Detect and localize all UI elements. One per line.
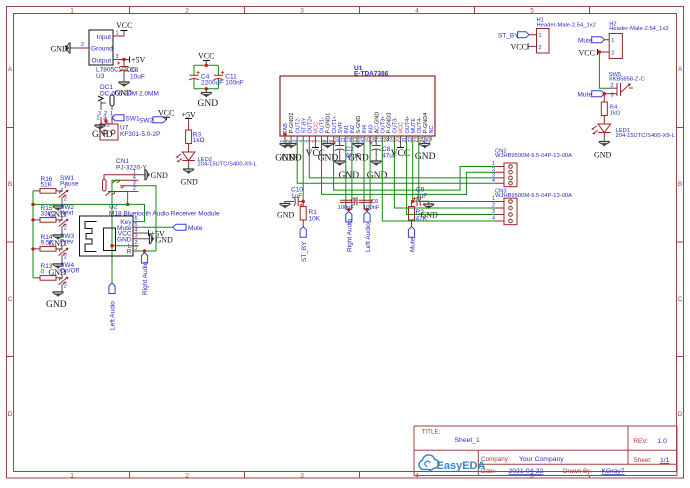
- svg-text:2: 2: [611, 51, 614, 57]
- junction dot L pin: [110, 244, 113, 247]
- svg-text:1: 1: [64, 184, 67, 190]
- svg-text:U3: U3: [96, 73, 105, 80]
- svg-text:Sheet_1: Sheet_1: [455, 437, 481, 444]
- svg-text:Input: Input: [97, 34, 112, 41]
- svg-text:204-15UTC/S400-X9-L: 204-15UTC/S400-X9-L: [616, 133, 676, 139]
- wire ST-BY to R1 node: [302, 141, 304, 202]
- svg-text:VCC: VCC: [314, 122, 320, 134]
- frame row letters right: [678, 66, 683, 418]
- net flag ST_BY: [300, 227, 306, 238]
- svg-text:5: 5: [530, 8, 534, 15]
- switch SW4: [59, 262, 80, 289]
- net flag SW1: [112, 115, 124, 121]
- capacitor C11: [213, 75, 223, 80]
- svg-text:D: D: [8, 411, 13, 418]
- svg-text:10K: 10K: [309, 216, 321, 223]
- U1 TAB node dot: [283, 133, 286, 136]
- U1 pin 9 OUT1+: [329, 116, 338, 143]
- svg-text:1: 1: [70, 8, 74, 15]
- junction dot SW5 pin3: [603, 92, 606, 95]
- capacitor C5: [340, 200, 353, 202]
- svg-text:EasyEDA: EasyEDA: [437, 460, 486, 472]
- switch SW3: [59, 233, 75, 260]
- svg-text:OUT4-: OUT4-: [417, 117, 423, 134]
- svg-text:1: 1: [135, 246, 138, 252]
- svg-text:Header-Male-2.54_1x2: Header-Male-2.54_1x2: [537, 23, 596, 29]
- U1 body: [280, 76, 435, 136]
- svg-text:OUT1-: OUT1-: [320, 117, 326, 134]
- svg-text:GND: GND: [46, 300, 67, 310]
- U1 pin 21 OUT4+: [402, 116, 411, 143]
- svg-text:25: 25: [426, 137, 432, 143]
- svg-text:VCC: VCC: [579, 48, 595, 57]
- svg-text:VCC: VCC: [391, 149, 411, 159]
- switch SW2: [59, 204, 75, 231]
- wire IN4/IN3 junction: [364, 209, 370, 211]
- svg-text:Left Audio: Left Audio: [110, 301, 117, 330]
- svg-text:3: 3: [492, 209, 495, 215]
- junction dot DC1: [104, 119, 107, 122]
- node dot ST-BY: [302, 200, 305, 203]
- LED1: [598, 124, 611, 133]
- ground under SW2: [49, 229, 67, 248]
- U7 body: [100, 124, 118, 140]
- wire OUT2- to CN2 pin1: [297, 141, 496, 183]
- svg-text:GND: GND: [348, 154, 369, 164]
- wire IN4 to C6: [363, 141, 365, 210]
- junction dot H2 pin2: [598, 50, 601, 53]
- ladder bus wire: [32, 191, 34, 278]
- svg-text:4: 4: [415, 8, 419, 15]
- svg-text:1: 1: [611, 38, 614, 44]
- ground under C3: [119, 82, 130, 87]
- U2 pin numbers: [135, 216, 138, 251]
- svg-text:100nF: 100nF: [338, 205, 355, 211]
- svg-text:2: 2: [64, 283, 67, 289]
- GND at U2 GND pin: [138, 238, 149, 240]
- resistor R13: [33, 263, 62, 280]
- U1 pin 17 OUT3+: [377, 116, 386, 143]
- svg-text:GND: GND: [277, 211, 295, 220]
- svg-text:ST_BY: ST_BY: [498, 33, 519, 40]
- wire IN1/IN2 junction: [346, 209, 352, 211]
- ground U1 pin 1: [275, 141, 296, 164]
- svg-text:1: 1: [116, 31, 119, 37]
- H1 body: [537, 29, 550, 54]
- U1 pin 18 P-GND3: [384, 113, 393, 143]
- svg-text:3: 3: [300, 472, 304, 479]
- svg-text:0: 0: [41, 269, 45, 276]
- frame row ticks right: [677, 128, 684, 357]
- svg-text:Prev: Prev: [60, 239, 74, 246]
- net flag Left Audio: [109, 283, 115, 294]
- svg-text:TITLE:: TITLE:: [422, 429, 441, 436]
- U1 pin 11 IN1: [341, 125, 350, 143]
- wire MUTE to R2 node: [412, 141, 414, 201]
- svg-text:P-GND3: P-GND3: [387, 113, 393, 134]
- CN1 pin 4: [112, 180, 138, 183]
- svg-text:Mute: Mute: [578, 38, 593, 45]
- svg-text:Your Company: Your Company: [519, 456, 564, 463]
- title block outline: [414, 426, 677, 476]
- VCC U1 pin 20: [391, 141, 411, 159]
- svg-text:51K: 51K: [41, 182, 53, 189]
- svg-text:TAB: TAB: [283, 123, 289, 134]
- ground under SW4: [46, 287, 67, 310]
- svg-text:GND: GND: [594, 151, 612, 160]
- svg-text:P-GND1: P-GND1: [326, 113, 332, 134]
- resistor R3: [186, 130, 192, 144]
- svg-text:E-TDA7386: E-TDA7386: [354, 71, 389, 78]
- U1 pin 19 OUT3-: [390, 117, 399, 143]
- svg-text:2: 2: [611, 83, 614, 89]
- net flag Right Audio input: [346, 212, 352, 223]
- CN2 body: [504, 163, 517, 187]
- svg-text:XKB5858-Z-C: XKB5858-Z-C: [609, 77, 645, 83]
- capacitor C4: [189, 75, 199, 80]
- DC1 pin leads: [101, 101, 112, 110]
- svg-text:VCC: VCC: [399, 122, 405, 134]
- ground U1 pin 24: [415, 141, 436, 162]
- svg-text:9.5K: 9.5K: [41, 240, 55, 247]
- svg-text:P-GND2: P-GND2: [289, 113, 295, 134]
- U3 pin 3 wire: [113, 59, 124, 61]
- svg-text:2: 2: [492, 203, 495, 209]
- svg-text:GND: GND: [51, 45, 69, 54]
- svg-text:R: R: [127, 249, 132, 256]
- frame row ticks left: [7, 128, 14, 357]
- DC1 jack contact: [98, 96, 103, 101]
- net flag Mute bottom: [408, 227, 414, 238]
- svg-text:Mute: Mute: [409, 237, 416, 252]
- resistor R2: [411, 201, 413, 226]
- wire U2 R pin: [138, 250, 156, 252]
- wire OUT4- to CN3 pin4: [419, 141, 496, 202]
- ground at U7: [95, 125, 106, 130]
- SW5 body: [609, 87, 618, 89]
- U1 pin 22 MUTE: [408, 118, 417, 143]
- LED2: [182, 152, 195, 161]
- svg-text:DC-005-20M 2.0MM: DC-005-20M 2.0MM: [100, 91, 159, 98]
- svg-text:2: 2: [185, 8, 189, 15]
- U1 pin 6 VCC: [311, 122, 320, 143]
- svg-text:NC: NC: [429, 126, 435, 134]
- svg-text:1: 1: [64, 213, 67, 219]
- svg-text:GND: GND: [198, 99, 219, 109]
- ground under caps: [205, 89, 207, 93]
- wire CN1 pin4 to left audio column: [112, 180, 121, 283]
- svg-text:10uF: 10uF: [130, 74, 145, 81]
- svg-text:GND: GND: [281, 154, 302, 164]
- node dot MUTE: [411, 200, 414, 203]
- ground U1 pin 2: [281, 141, 302, 164]
- svg-text:1: 1: [64, 242, 67, 248]
- frame column ticks bottom: [130, 472, 590, 479]
- CN2 pin numbers: [492, 161, 495, 184]
- junction dot pin2 to bus: [126, 203, 129, 206]
- CN1 pin 2: [106, 192, 139, 196]
- svg-text:2: 2: [64, 196, 67, 202]
- svg-text:VCC: VCC: [511, 43, 527, 52]
- svg-text:3: 3: [135, 233, 138, 239]
- CN1 pin 1 wire: [104, 175, 138, 180]
- svg-text:A: A: [678, 66, 683, 73]
- wire ladder to U2 Key pin: [33, 204, 145, 221]
- svg-text:1: 1: [539, 33, 542, 39]
- CN2 pin stubs: [496, 167, 504, 184]
- svg-text:18: 18: [384, 137, 390, 143]
- ground at C9: [423, 204, 434, 209]
- net flag Mute at U2: [173, 224, 186, 230]
- svg-text:REV:: REV:: [634, 438, 649, 445]
- svg-text:VCC: VCC: [116, 21, 132, 30]
- capacitor C3: [123, 60, 125, 83]
- svg-text:1: 1: [64, 271, 67, 277]
- ground under SW1: [49, 200, 67, 219]
- svg-text:AC-GND: AC-GND: [374, 112, 380, 134]
- svg-text:SW2: SW2: [139, 118, 153, 125]
- svg-text:100nF: 100nF: [225, 80, 243, 87]
- svg-text:Header-Male-2.54_1x2: Header-Male-2.54_1x2: [609, 26, 668, 32]
- U1 pin 14 IN4: [359, 125, 368, 143]
- CN1 body sleeve: [103, 180, 107, 192]
- +5V symbol at output: [129, 57, 131, 63]
- wire IN3 to C6: [369, 141, 371, 210]
- junction dots: [205, 64, 208, 67]
- svg-text:KF301-5.0-2P: KF301-5.0-2P: [120, 131, 160, 138]
- svg-text:1kΩ: 1kΩ: [193, 137, 205, 144]
- H2 body: [609, 34, 622, 59]
- ground U1 pin 13: [348, 141, 369, 164]
- wire OUT1+ to CN2 pin4: [334, 141, 496, 190]
- svg-text:2: 2: [97, 116, 100, 122]
- capacitor C8 on AC-GND pin 16: [367, 141, 397, 181]
- H2 pin wires: [599, 40, 609, 52]
- U1 pin 13 S-GND: [353, 116, 362, 143]
- frame row letters left: [8, 66, 13, 418]
- U1 pin 10 SVR: [335, 122, 344, 142]
- svg-text:1/1: 1/1: [660, 457, 670, 464]
- svg-text:B: B: [678, 181, 682, 188]
- GND left symbol: [65, 43, 70, 54]
- svg-text:Mute: Mute: [188, 225, 203, 232]
- ground under SW3: [49, 258, 67, 277]
- resistor R14: [33, 234, 62, 251]
- svg-text:3: 3: [611, 93, 614, 99]
- svg-text:1kΩ: 1kΩ: [610, 111, 621, 117]
- capacitor C2 on SVR pin 10: [333, 141, 360, 181]
- svg-text:3: 3: [116, 54, 119, 60]
- svg-text:Left Audio: Left Audio: [365, 223, 372, 252]
- U3 pin 1 wire to VCC: [113, 35, 124, 37]
- wire mute row: [138, 226, 173, 228]
- svg-text:4: 4: [492, 178, 495, 184]
- resistor R4: [601, 102, 607, 116]
- svg-text:GND: GND: [151, 171, 169, 180]
- U2 pin stubs: [133, 222, 138, 251]
- U1 pin 12 IN2: [347, 125, 356, 143]
- ground under LED2: [188, 161, 190, 166]
- svg-text:33kΩ: 33kΩ: [41, 211, 56, 218]
- svg-text:1: 1: [492, 196, 495, 202]
- wire IN2 to C5: [351, 141, 353, 210]
- U1 pin 15 IN3: [365, 125, 374, 143]
- svg-text:47K: 47K: [416, 216, 428, 223]
- svg-text:+5V: +5V: [131, 56, 146, 65]
- svg-text:A: A: [8, 66, 13, 73]
- svg-text:P-GND4: P-GND4: [423, 113, 429, 134]
- svg-text:2: 2: [64, 254, 67, 260]
- cap loop wires: [194, 65, 218, 89]
- wire OUT4+ to CN3 pin3: [407, 141, 496, 215]
- svg-text:S-GND: S-GND: [356, 116, 362, 134]
- resistor R15: [33, 205, 62, 222]
- svg-text:GND: GND: [156, 235, 174, 244]
- U1 pin 1 TAB: [280, 123, 289, 143]
- resistor R16: [33, 176, 62, 193]
- svg-text:B: B: [8, 181, 12, 188]
- svg-text:ST_BY: ST_BY: [301, 241, 308, 262]
- svg-text:OUT3-: OUT3-: [393, 117, 399, 134]
- wire IN1 to C5: [345, 141, 347, 210]
- svg-text:PJ-3220-Y: PJ-3220-Y: [116, 165, 147, 172]
- svg-text:1uF: 1uF: [416, 193, 427, 200]
- CN3 body: [504, 198, 517, 225]
- frame column numbers top: [70, 8, 534, 15]
- U1 pin 23 OUT4-: [414, 117, 423, 143]
- svg-text:Drawn By:: Drawn By:: [563, 468, 592, 475]
- svg-text:WJHB9500M-9.5-04P-13-00A: WJHB9500M-9.5-04P-13-00A: [495, 153, 572, 159]
- junction dots ladder: [31, 203, 34, 206]
- svg-text:2: 2: [81, 42, 84, 48]
- svg-text:1.0: 1.0: [658, 438, 668, 445]
- svg-text:IN1: IN1: [344, 125, 350, 134]
- svg-text:VCC: VCC: [198, 52, 214, 61]
- net flag Right Audio: [141, 253, 147, 264]
- U1 pin 25 NC: [426, 126, 435, 143]
- svg-text:2200uF: 2200uF: [201, 80, 223, 87]
- svg-text:Output: Output: [91, 57, 111, 64]
- svg-text:4: 4: [492, 216, 495, 222]
- svg-text:IN2: IN2: [350, 125, 356, 134]
- wire OUT3- to CN3 pin2: [394, 141, 496, 208]
- svg-text:SVR: SVR: [338, 122, 344, 133]
- U1 pin 8 P-GND1: [323, 113, 332, 143]
- svg-text:GND: GND: [415, 152, 436, 162]
- DC1 barrel pin: [110, 95, 114, 106]
- capacitor C6: [359, 200, 374, 202]
- frame column numbers bottom: [70, 472, 534, 479]
- svg-text:1uF: 1uF: [291, 193, 302, 200]
- svg-text:1: 1: [70, 472, 74, 479]
- svg-text:2021-04-22: 2021-04-22: [509, 468, 544, 475]
- ground under LED1: [603, 133, 605, 138]
- wire R4 to LED1: [603, 116, 605, 125]
- svg-text:2: 2: [185, 472, 189, 479]
- svg-text:Ground: Ground: [91, 46, 113, 53]
- U2 body: [80, 216, 134, 256]
- U1 pin 4 ST-BY: [298, 117, 307, 142]
- +5V at U2 VCC pin: [138, 232, 148, 234]
- svg-text:C: C: [8, 296, 13, 303]
- svg-text:D: D: [678, 411, 683, 418]
- svg-text:ST-BY: ST-BY: [301, 117, 307, 133]
- U2 icon maze: [85, 222, 97, 252]
- svg-text:SW1: SW1: [126, 116, 140, 123]
- svg-text:OUT3+: OUT3+: [380, 116, 386, 134]
- U2 icon rect: [104, 228, 116, 251]
- junction dot R pin: [143, 249, 146, 252]
- svg-text:3: 3: [300, 8, 304, 15]
- svg-text:2: 2: [64, 225, 67, 231]
- svg-text:KGray7: KGray7: [602, 468, 625, 475]
- U1 pin 24 P-GND4: [420, 113, 429, 143]
- DC1 wires into U7: [101, 117, 112, 124]
- svg-text:C: C: [678, 296, 683, 303]
- node dot output: [122, 58, 125, 61]
- EasyEDA logo: [419, 455, 439, 471]
- U1 pin 16 AC-GND: [371, 112, 380, 143]
- wire OUT2+ to CN2 pin2: [309, 141, 496, 178]
- svg-text:IN4: IN4: [362, 125, 368, 134]
- svg-text:2: 2: [107, 123, 110, 129]
- CN3 pin stubs: [496, 202, 504, 222]
- wire U2 L pin: [112, 245, 138, 247]
- ground at C10: [280, 204, 291, 209]
- U1 pin 7 OUT1-: [317, 117, 326, 143]
- VCC symbol top of U3: [121, 30, 128, 32]
- U7 terminals: [103, 130, 107, 134]
- svg-text:Sheet:: Sheet:: [634, 457, 652, 464]
- wire OUT1- to CN2 pin3: [322, 141, 497, 194]
- net flag Left Audio input: [364, 212, 370, 223]
- svg-text:Mute: Mute: [578, 92, 593, 99]
- resistor R1: [302, 202, 304, 227]
- CN1 pin 3: [120, 186, 138, 188]
- svg-text:GND: GND: [181, 178, 199, 187]
- U1 pin 2 P-GND2: [286, 113, 295, 143]
- svg-text:204-15UTC/S400-X9-L: 204-15UTC/S400-X9-L: [198, 162, 258, 168]
- switch SW1: [59, 175, 79, 202]
- svg-text:OUT2+: OUT2+: [307, 116, 313, 134]
- wire OUT3+ to CN3 pin1: [382, 141, 496, 221]
- svg-text:GND: GND: [339, 171, 360, 181]
- svg-text:VCC: VCC: [158, 109, 174, 118]
- wire CN1 pin3 to right audio column: [138, 186, 156, 251]
- svg-text:GND: GND: [92, 130, 113, 140]
- frame column ticks top: [130, 7, 590, 14]
- H1 pin wires: [529, 35, 537, 47]
- svg-text:MUTE: MUTE: [411, 118, 417, 134]
- regulator U3 body: [89, 30, 113, 65]
- ground U1 pin 8: [318, 141, 339, 164]
- wire SW5 to R4: [603, 94, 605, 102]
- GND right arrow at CN1: [145, 169, 150, 180]
- wire H2 pin2 to SW5: [599, 52, 608, 88]
- svg-text:Right Audio: Right Audio: [142, 261, 149, 295]
- U1 pin 5 OUT2+: [304, 116, 313, 143]
- U3 pin 2 wire: [77, 47, 89, 49]
- U1 pin 3 OUT2-: [292, 117, 301, 143]
- U1 pin 20 VCC: [396, 122, 405, 143]
- CN3 pin numbers: [492, 196, 495, 222]
- wire CN1 pin2 to key bus: [128, 192, 139, 205]
- VCC U1 pin 6: [306, 141, 326, 159]
- svg-text:2: 2: [539, 45, 542, 51]
- svg-text:Right Audio: Right Audio: [347, 218, 354, 252]
